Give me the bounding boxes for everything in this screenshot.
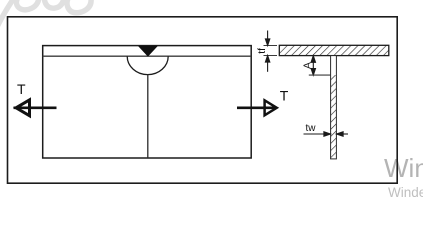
dimension a line with arrows	[311, 56, 315, 75]
dimension tw arrows	[304, 132, 349, 136]
svg-text:tw: tw	[306, 123, 317, 134]
svg-text:A: A	[303, 62, 314, 69]
svg-text:T: T	[17, 81, 26, 97]
svg-text:Windele: Windele	[388, 185, 423, 199]
svg-text:T: T	[280, 88, 289, 104]
weld arc (semicircle)	[127, 56, 168, 74]
web hatched zone (below weld)	[331, 75, 337, 159]
svg-text:tf: tf	[256, 48, 268, 54]
watermark top-left (large light-grey glyph fragments)	[0, 0, 91, 27]
dimension tf arrows	[265, 31, 269, 72]
weld seam vertical line	[147, 74, 149, 158]
svg-text:Winde: Winde	[384, 153, 423, 183]
outer border frame	[8, 17, 398, 183]
flange edge line (left view)	[43, 55, 252, 57]
force arrow left (T)	[14, 100, 57, 116]
dimension tf extension lines	[264, 45, 278, 47]
flange (cross-section, hatched)	[279, 45, 389, 55]
force arrow right (T)	[237, 100, 277, 115]
web (cross-section)	[331, 56, 337, 159]
weld symbol triangle	[138, 46, 158, 57]
dimension a extension line	[309, 74, 331, 76]
plate (left view)	[43, 46, 252, 158]
